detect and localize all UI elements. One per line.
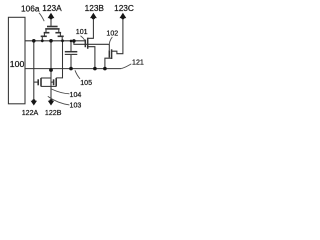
svg-text:100: 100 (10, 59, 25, 69)
transistor 101 (85, 38, 95, 69)
wire 123C vertical to 102 drain (112, 17, 123, 54)
leader 104 (51, 89, 69, 94)
svg-text:103: 103 (70, 102, 82, 110)
labels (10, 3, 144, 117)
junction dots (32, 39, 107, 72)
terminal arrow 123B (90, 13, 97, 20)
svg-text:102: 102 (106, 29, 118, 37)
junction bus1/122A (32, 39, 36, 43)
junction 121/101 source (93, 67, 97, 71)
leader 103 (48, 96, 70, 105)
terminal arrow 123A (48, 13, 55, 20)
svg-text:122A: 122A (22, 109, 39, 117)
transistor 103 (34, 78, 51, 87)
transistor 104 (51, 78, 56, 87)
junction bus1/122B (49, 39, 53, 43)
box 100 (8, 17, 25, 104)
wire bus1 through 121 to 122B terminal (50, 41, 52, 101)
terminal arrow 122B (48, 99, 54, 105)
leader 101 (81, 36, 86, 41)
leader 106a (39, 13, 44, 21)
junction 121/102 source (103, 67, 107, 71)
terminal arrow 123C (120, 13, 127, 20)
svg-text:121: 121 (132, 59, 144, 67)
wire gate link 101-102 (74, 41, 109, 44)
svg-text:122B: 122B (45, 109, 62, 117)
transistor 102 (105, 44, 112, 68)
leader 102 (109, 37, 112, 46)
svg-text:123B: 123B (85, 3, 105, 13)
svg-text:101: 101 (76, 28, 88, 36)
junction 121/capacitor (69, 67, 73, 71)
wire 123B vertical and 101 drain lead (88, 17, 94, 39)
svg-text:106a: 106a (21, 4, 40, 14)
terminal arrow 122A (31, 99, 37, 105)
leader 121 (121, 64, 131, 69)
junction bus1/gate-link wire (72, 39, 76, 43)
wire capacitor bottom lead (70, 55, 72, 69)
wire bus1 to transistor 104 drain (56, 41, 62, 78)
wire 121 output bus (25, 68, 122, 70)
svg-text:123C: 123C (114, 3, 134, 13)
svg-text:105: 105 (80, 79, 92, 87)
capacitor C (65, 52, 78, 55)
junction bus1/106a left foot (41, 39, 44, 42)
wire bus1 node A (25, 40, 86, 42)
wire capacitor top lead (70, 41, 72, 51)
leader lines (39, 13, 131, 105)
wire bus1 to 122A terminal (33, 41, 35, 101)
svg-text:104: 104 (70, 91, 82, 99)
leader 105 (75, 70, 80, 79)
wire 123A vertical (50, 17, 52, 27)
junction bus1/capacitor (70, 40, 73, 43)
terminal arrows (31, 13, 127, 106)
junction 121/122B (49, 68, 53, 72)
transistor 106a (41, 27, 64, 41)
junction bus1/104 (61, 39, 64, 42)
svg-text:123A: 123A (42, 3, 62, 13)
